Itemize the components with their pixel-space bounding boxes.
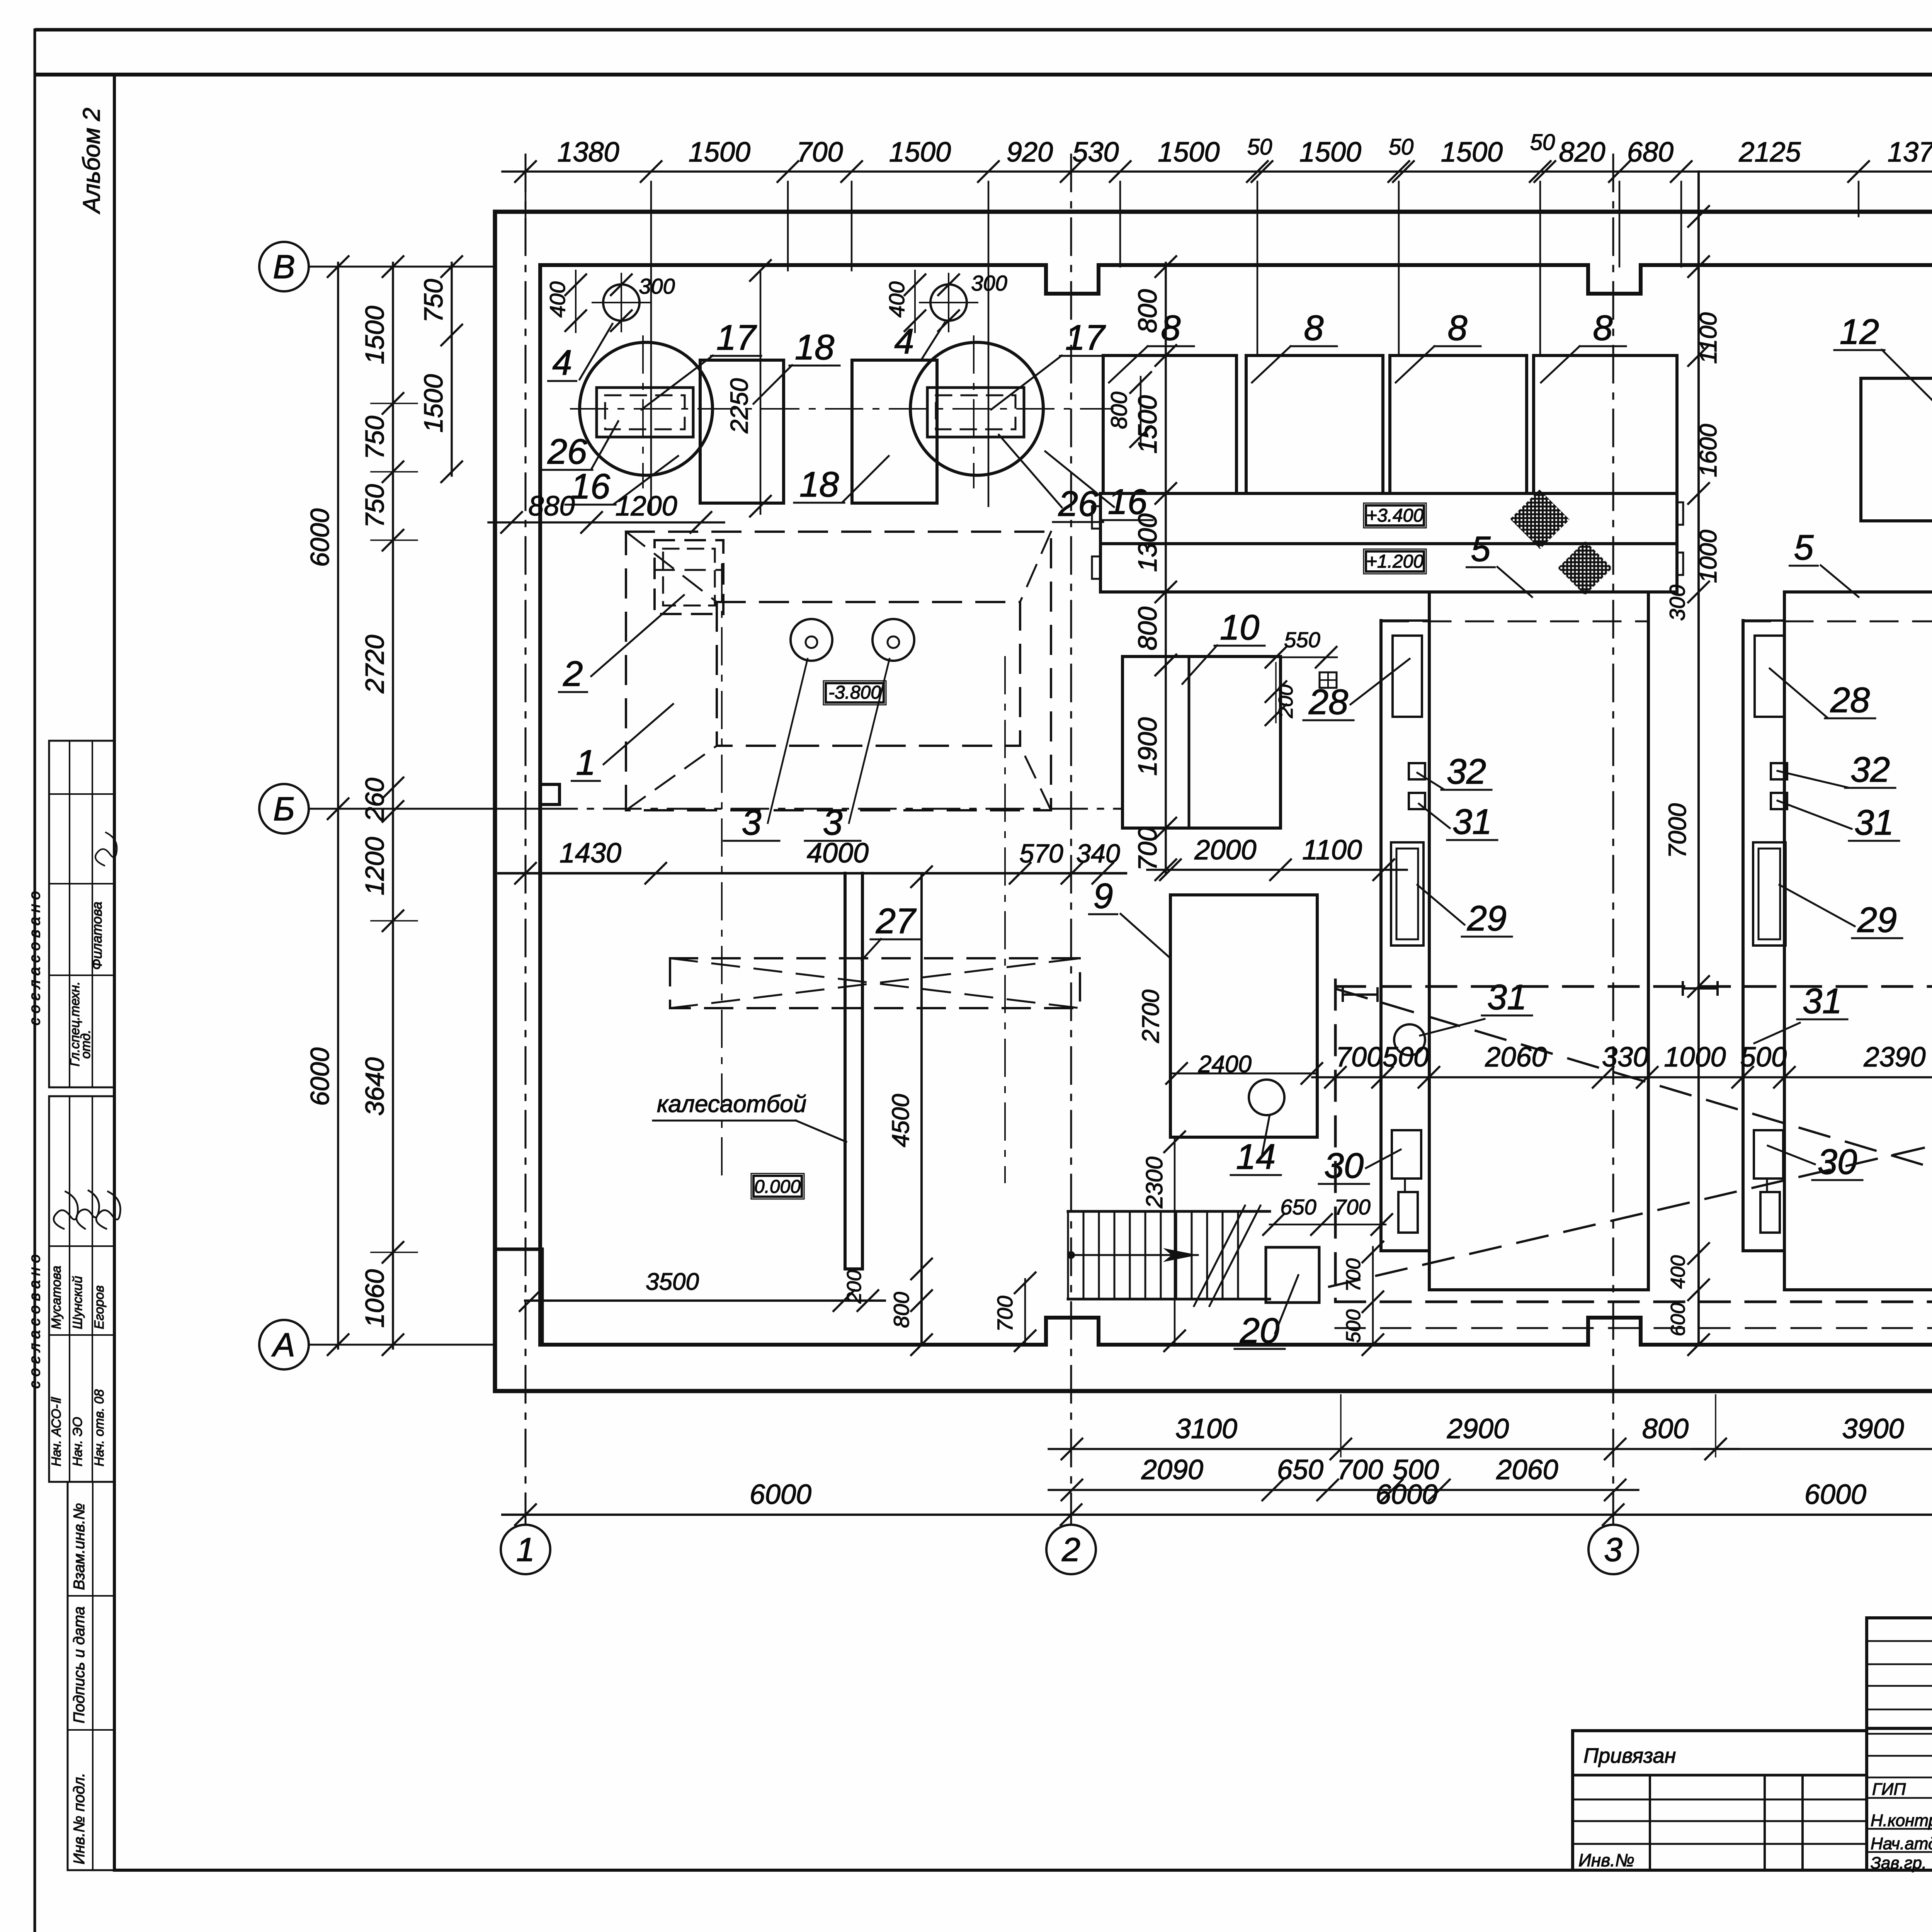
dim 3500 and 200 [525,1299,885,1302]
svg-text:1500: 1500 [1158,137,1219,168]
svg-text:6000: 6000 [1804,1479,1866,1510]
svg-text:750: 750 [360,484,389,528]
signature squiggle [95,832,117,866]
svg-text:1500: 1500 [689,137,750,168]
second dashed line above bottom wall [1335,1327,1932,1329]
svg-text:Нач. ЭО: Нач. ЭО [70,1417,85,1466]
grid axis circle 1 [501,1525,550,1574]
svg-text:650: 650 [1277,1454,1323,1485]
vertical grid axis dash-dot lines [525,155,527,1525]
item 10 rect [1122,656,1281,828]
svg-text:31: 31 [1487,978,1527,1017]
svg-text:800: 800 [1133,607,1162,651]
tank vertical centerline [642,336,644,488]
svg-text:12: 12 [1840,312,1879,352]
tank item 8 #2 [1246,355,1383,493]
svg-text:2125: 2125 [1738,137,1801,168]
svg-text:500: 500 [1342,1310,1365,1343]
svg-text:1200: 1200 [360,837,389,895]
svg-text:2390: 2390 [1863,1042,1925,1073]
item 28 rect bay 1 [1393,636,1422,717]
door tabs on strip left [1092,506,1100,529]
item 30 rects bay 2 [1754,1130,1783,1179]
svg-text:700: 700 [1342,1259,1365,1292]
svg-text:14: 14 [1236,1137,1276,1177]
chain 1900/700 [1165,665,1167,874]
svg-text:30: 30 [1324,1146,1364,1185]
svg-text:700: 700 [1334,1195,1370,1219]
svg-text:Нач. отв. 08: Нач. отв. 08 [92,1389,107,1466]
svg-text:300: 300 [971,271,1007,295]
svg-text:0.000: 0.000 [754,1177,801,1197]
building left wall outer [493,212,497,1391]
svg-text:ГИП: ГИП [1872,1780,1906,1799]
svg-text:600: 600 [1667,1303,1689,1337]
item 12 rect [1861,378,1932,521]
svg-text:880: 880 [528,491,575,522]
sidebar approval table B [49,1096,114,1482]
svg-text:Привязан: Привязан [1583,1744,1676,1767]
svg-text:7000: 7000 [1663,803,1691,858]
vertical dim line 7000 [1697,172,1700,1345]
circle item 14 [1249,1080,1284,1115]
dim 800 vertical near wheel guard [921,1269,923,1345]
staircase [1068,1210,1270,1213]
svg-text:750: 750 [360,416,389,460]
svg-text:500: 500 [1740,1042,1787,1073]
mark -3.800 [826,683,884,702]
svg-text:650: 650 [1280,1195,1316,1219]
svg-text:27: 27 [876,901,917,941]
svg-text:1500: 1500 [360,306,389,364]
svg-text:Егоров: Егоров [92,1285,107,1329]
small circle item 4 near tank #2 [930,284,967,321]
item 30 rects bay 1 [1392,1130,1421,1179]
svg-text:2250: 2250 [725,378,753,434]
hatch patch 1 [1510,490,1570,549]
bay #1 big rect [1429,590,1648,594]
svg-text:17: 17 [1065,318,1106,357]
svg-text:200: 200 [843,1270,866,1304]
dim 800 vertical right of tank2 [1140,377,1142,442]
door tabs on strip right [1677,502,1683,525]
tanks common horizontal centerline [571,408,1113,410]
svg-text:-3.800: -3.800 [828,682,881,703]
svg-text:8: 8 [1304,308,1323,348]
svg-text:30: 30 [1818,1142,1857,1182]
dim 550 [1271,656,1337,658]
left chain 6000/6000 [337,263,339,1349]
dim 700 vertical [1024,1279,1026,1345]
svg-text:20: 20 [1240,1311,1279,1350]
bays dimension chain [1312,1076,1932,1078]
pit diagonal dashed X [1337,989,1932,1321]
svg-text:50: 50 [1389,134,1414,160]
svg-text:2: 2 [1061,1531,1080,1568]
svg-text:4: 4 [552,343,572,383]
svg-text:А: А [271,1327,295,1364]
svg-text:Б: Б [273,791,295,828]
svg-text:1430: 1430 [560,838,621,869]
svg-text:8: 8 [1447,308,1467,348]
svg-text:калесаотбой: калесаотбой [657,1091,806,1117]
svg-text:+1.200: +1.200 [1366,551,1423,572]
svg-text:5: 5 [1471,529,1491,569]
mark +3.400 [1366,505,1424,526]
title block [1571,1731,1574,1870]
grid axis horizontal connector lines [309,266,495,268]
svg-text:Нач. АСО-Ⅱ: Нач. АСО-Ⅱ [49,1397,64,1466]
left wall pilaster at axis Б [540,784,560,804]
svg-text:800: 800 [1642,1413,1689,1444]
svg-text:Зав.гр.: Зав.гр. [1871,1854,1927,1872]
dim 2250 vertical [760,270,762,514]
svg-text:3640: 3640 [360,1057,389,1116]
svg-text:26: 26 [547,432,587,471]
washing bay #2 [1742,621,1745,1251]
bay #2 dashed top line [1743,621,1932,622]
svg-text:6000: 6000 [305,509,335,567]
bottom-left wall step [495,1249,542,1345]
building bottom wall inner with column notches [540,1318,1932,1345]
svg-text:700: 700 [1336,1042,1382,1073]
svg-text:5: 5 [1794,528,1814,567]
svg-text:330: 330 [1602,1042,1648,1073]
svg-text:Филатова: Филатова [89,901,105,970]
bottom chain 6000x3 [502,1514,1932,1516]
svg-text:570: 570 [1019,839,1063,868]
title block mini grid left [1649,1775,1651,1870]
washing pit dashed outline [1334,980,1337,1302]
svg-text:1375: 1375 [1888,137,1932,168]
washing bay #1 [1379,621,1383,1251]
sheet top edge line [37,28,1932,32]
svg-text:10: 10 [1220,608,1259,647]
axis Б chain [498,872,1126,875]
svg-text:1600: 1600 [1695,424,1722,477]
svg-text:680: 680 [1627,137,1673,168]
svg-text:18: 18 [799,465,839,504]
grid axis circle В [259,242,309,291]
svg-text:300: 300 [639,274,675,298]
svg-text:920: 920 [1007,137,1053,168]
svg-text:8: 8 [1161,308,1180,348]
dim 4500 vertical [920,873,923,1345]
svg-text:1900: 1900 [1133,717,1162,776]
svg-text:700: 700 [1133,827,1162,871]
svg-text:с о г л а с о в а н о: с о г л а с о в а н о [26,891,43,1026]
svg-text:300: 300 [1665,585,1689,621]
bottom chain 3100/2900/800 [1049,1448,1739,1450]
sidebar approval table A [49,741,114,1087]
svg-text:8: 8 [1593,308,1612,348]
svg-text:4: 4 [894,322,914,361]
svg-text:16: 16 [571,467,611,506]
dim chain 880/1200 [488,521,724,524]
svg-text:1300: 1300 [1133,514,1162,572]
grid axis circle Б [259,784,309,833]
svg-text:с о г л а с о в а н о: с о г л а с о в а н о [26,1254,43,1389]
svg-text:4500: 4500 [888,1094,914,1147]
svg-text:2700: 2700 [1138,990,1164,1043]
svg-text:6000: 6000 [1376,1479,1437,1510]
svg-text:750: 750 [419,279,448,323]
svg-text:2720: 2720 [360,635,389,694]
pit item 1 outer dashed rectangle [626,532,1051,810]
tank item 8 #3 [1390,355,1527,493]
svg-text:1500: 1500 [419,374,448,432]
stair direction arrow [1070,1254,1198,1256]
svg-text:1100: 1100 [1302,835,1362,866]
svg-text:1: 1 [516,1531,535,1568]
svg-text:1060: 1060 [360,1269,389,1328]
svg-text:2900: 2900 [1447,1413,1509,1444]
item 9 rect [1170,895,1317,1137]
svg-text:Н.контр.: Н.контр. [1871,1811,1932,1830]
svg-text:400: 400 [884,281,909,317]
svg-text:1500: 1500 [1299,137,1361,168]
hatch patch 2 [1558,541,1612,595]
svg-text:29: 29 [1467,899,1507,938]
svg-text:800: 800 [1107,392,1132,429]
building left wall inner [538,265,542,1345]
extension lines to bottom chains [1340,1395,1342,1457]
item 27 dashed rect [670,958,1080,1008]
svg-text:260: 260 [360,778,389,822]
svg-text:Взам.инв.№: Взам.инв.№ [71,1503,88,1590]
dims 650/700 near stair [1270,1224,1386,1226]
svg-text:9: 9 [1093,876,1113,916]
axis Б dash-dot line through pit [540,808,1121,810]
svg-text:Инв.№: Инв.№ [1578,1850,1634,1870]
svg-text:700: 700 [796,137,843,168]
item 18 left rect [700,360,784,503]
drain circles item 3 [791,619,832,661]
svg-text:31: 31 [1854,803,1894,842]
grid axis circle А [259,1320,309,1369]
svg-text:3: 3 [742,803,761,842]
svg-text:3500: 3500 [646,1269,699,1295]
svg-text:32: 32 [1850,750,1890,789]
svg-text:2300: 2300 [1141,1156,1167,1208]
svg-text:Инв.№ подл.: Инв.№ подл. [71,1773,88,1864]
svg-text:50: 50 [1530,130,1555,155]
item 20 rect [1266,1247,1319,1303]
svg-text:400: 400 [545,281,570,317]
svg-text:6000: 6000 [305,1048,335,1106]
wheel track dash-dot lines [721,564,723,1179]
frame bottom line [114,1869,1932,1872]
extension stubs left chains [371,403,417,404]
signatures squiggles [54,1192,78,1229]
item 28 rect bay 2 [1755,636,1784,717]
svg-text:3900: 3900 [1842,1413,1904,1444]
svg-text:1000: 1000 [1664,1042,1726,1073]
svg-text:1000: 1000 [1695,530,1722,583]
item 31 square bay 2 [1771,793,1787,809]
svg-text:700: 700 [993,1296,1017,1332]
item 32 square bay 1 [1409,763,1425,779]
bottom chain 3900/1300 [1692,1448,1932,1450]
bay #1 dashed top line [1381,621,1648,622]
top dimension chain [502,170,1932,173]
svg-text:Мусатова: Мусатова [49,1266,64,1329]
title block small signature grid [1867,1618,1932,1870]
svg-text:1380: 1380 [557,137,619,168]
item 29 rect bay 1 [1391,842,1423,946]
title block right area [1867,1616,1932,1619]
shelf strip +3.400 [1100,493,1677,544]
svg-text:28: 28 [1830,680,1870,720]
svg-text:1200: 1200 [615,491,677,522]
building bottom wall outer [495,1389,1932,1393]
grid axis circle 2 [1046,1525,1096,1574]
left chain detail [392,263,394,1349]
item 32 square bay 2 [1771,763,1787,779]
small circle item 4 near tank #1 [603,284,639,321]
sidebar stamp strip table C [68,1482,114,1870]
svg-text:500: 500 [1383,1042,1429,1073]
mark +1.200 [1366,551,1424,571]
shelf strip +1.200 [1100,544,1677,592]
pit corner diagonals [626,532,717,602]
svg-text:1100: 1100 [1695,312,1722,364]
svg-text:1500: 1500 [889,137,951,168]
svg-text:800: 800 [1133,289,1162,333]
svg-text:29: 29 [1857,900,1897,940]
svg-text:820: 820 [1559,137,1605,168]
svg-text:3: 3 [823,803,842,842]
circles item 31 in bays 1,3 [1394,1024,1425,1055]
chain 2000/1100 [1147,869,1407,871]
svg-text:В: В [273,248,295,286]
svg-text:17: 17 [716,318,757,357]
svg-text:Шунский: Шунский [70,1276,85,1329]
svg-text:2060: 2060 [1485,1042,1547,1073]
svg-text:400: 400 [1667,1255,1689,1289]
svg-text:2: 2 [563,654,583,694]
svg-text:Альбом 2: Альбом 2 [78,108,105,215]
mark 0.000 [753,1176,802,1197]
svg-text:2090: 2090 [1141,1454,1203,1485]
item 31 square bay 1 [1409,793,1425,809]
stair break line [1209,1206,1260,1306]
svg-text:1500: 1500 [1441,137,1503,168]
tank item 8 #4 [1534,355,1677,493]
tank vertical centerline [973,336,975,488]
tank item 16 #2 [910,342,1043,475]
top chain extension lines [525,182,527,216]
pit item 1 inner dashed rectangle [717,602,1020,746]
svg-text:4000: 4000 [807,838,869,869]
svg-text:1500: 1500 [1133,395,1162,454]
svg-text:Нач.атд.: Нач.атд. [1871,1834,1932,1853]
svg-text:340: 340 [1076,839,1120,868]
left chain short 750/1500 [451,263,453,476]
item 18 right rect [852,360,937,503]
svg-text:50: 50 [1247,134,1272,160]
svg-text:530: 530 [1072,137,1119,168]
item 29 rect bay 2 [1753,842,1786,946]
svg-text:3100: 3100 [1175,1413,1237,1444]
svg-text:32: 32 [1447,752,1486,791]
svg-text:550: 550 [1284,628,1320,652]
frame left inner edge [113,75,116,1870]
chain 800/1500/1300/800 [1165,263,1167,669]
svg-text:Подпись и дата: Подпись и дата [71,1606,88,1723]
svg-text:1: 1 [576,743,595,782]
svg-text:2060: 2060 [1496,1454,1558,1485]
svg-text:31: 31 [1452,802,1492,842]
bay #2 big rect [1784,590,1932,594]
svg-text:2000: 2000 [1194,835,1256,866]
building top wall inner with column notches [540,265,1932,294]
dims 700/500 left of bays [1372,1247,1374,1345]
sheet left edge [34,30,36,1932]
grid axis circle 3 [1588,1525,1638,1574]
tank item 8 #1 [1103,355,1236,493]
svg-text:18: 18 [795,328,834,367]
building top wall outer [495,210,1932,214]
svg-text:800: 800 [889,1292,913,1328]
svg-text:+3.400: +3.400 [1366,505,1423,526]
svg-text:6000: 6000 [750,1479,811,1510]
svg-text:3: 3 [1604,1531,1622,1568]
tank item 16 #1 [580,342,713,475]
svg-text:отд.: отд. [78,1030,93,1059]
bottom chain 2090... [1049,1489,1638,1491]
wheel guard strip колесоотбой [844,873,847,1269]
small window symbol [1320,672,1337,688]
dim 2300 vertical [1174,1137,1176,1345]
item 2 dashed double square [655,540,723,614]
section marks on dashed lines [1343,993,1378,996]
svg-text:28: 28 [1308,682,1348,722]
sheet top band lower line [37,73,1932,77]
